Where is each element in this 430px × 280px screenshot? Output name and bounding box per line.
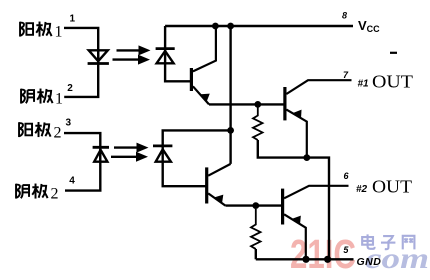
LED D1 triangle — [89, 50, 108, 61]
transistor Q4 base bar — [281, 189, 284, 225]
label anode2 阳极2 — [19, 122, 61, 141]
LED D2 cathode bar — [93, 146, 109, 149]
LED D1 cathode bar — [88, 62, 109, 65]
transistor Q2 emitter — [286, 110, 306, 158]
junction dot A (Q1 collector) — [212, 23, 219, 30]
resistor R1 — [253, 107, 263, 140]
junction dot PD2/rail — [227, 127, 234, 134]
label anode1 阳极1 — [20, 22, 62, 41]
minus dash mark — [390, 52, 397, 54]
transistor Q4 emitter — [284, 214, 306, 259]
junction dot B (vertical rail) — [227, 23, 234, 30]
transistor Q2 base bar — [283, 87, 286, 120]
wire PD2 anode to Q3 base — [163, 162, 207, 187]
photodiode PD1 triangle — [157, 51, 174, 63]
wire pin1 to LED1 anode — [64, 28, 98, 64]
junction dot R2 top — [252, 202, 259, 209]
svg-text:OUT: OUT — [372, 72, 413, 92]
wire Q3 emitter to Q4 base — [225, 204, 282, 206]
svg-text:2: 2 — [51, 186, 59, 203]
wire LED2 to pin4 — [65, 149, 100, 191]
svg-text:#1: #1 — [358, 79, 370, 90]
wire PD1 anode to Q1 base — [165, 63, 191, 81]
svg-text:4: 4 — [69, 176, 75, 187]
GND rail — [256, 258, 354, 260]
vertical VCC rail — [229, 26, 231, 164]
transistor Q1 emitter — [193, 86, 209, 104]
label cathode2 阴极2 — [16, 184, 58, 203]
LED D2 triangle — [94, 150, 107, 162]
junction dot Q2 emitter — [303, 154, 310, 161]
transistor Q4 collector — [284, 186, 348, 199]
svg-text:2: 2 — [67, 83, 73, 94]
svg-text:1: 1 — [55, 91, 63, 108]
Q3 emitter arrow — [214, 191, 226, 203]
Q4 emitter arrow — [292, 213, 304, 225]
wire Q1 emitter to Q2 base — [209, 103, 285, 105]
wire pin3 to LED2 — [64, 133, 100, 162]
transistor Q3 base bar — [205, 167, 208, 203]
wire PD2 cathode to rail — [163, 130, 231, 161]
svg-text:8: 8 — [342, 10, 347, 20]
wire PD1 cathode to VCC rail — [164, 26, 166, 63]
svg-text:GND: GND — [357, 256, 382, 268]
resistor R2 — [251, 209, 261, 249]
svg-text:#2: #2 — [356, 184, 368, 195]
Q1 emitter arrow — [200, 90, 212, 102]
light arrows channel 2 — [111, 143, 149, 162]
photodiode PD2 triangle — [156, 149, 171, 161]
junction dot GND link — [324, 256, 331, 263]
svg-text:2: 2 — [54, 125, 62, 142]
svg-text:1: 1 — [70, 14, 76, 25]
transistor Q1 base bar — [190, 68, 193, 91]
watermark dianzwang 电子网 — [362, 234, 374, 248]
label cathode1 阴极1 — [21, 89, 63, 108]
light arrows channel 1 — [113, 45, 151, 64]
wire R2 bottom to GND — [255, 249, 257, 259]
svg-text:1: 1 — [55, 24, 63, 41]
photodiode PD2 cathode bar — [153, 144, 172, 147]
transistor Q3 emitter — [208, 193, 225, 205]
wire LED1 cathode to pin2 — [64, 50, 98, 97]
junction dot Q4 emitter GND — [302, 256, 309, 263]
transistor Q1 collector — [193, 26, 216, 71]
wire R1 bottom to emitter/ground link — [258, 140, 329, 259]
svg-text:3: 3 — [66, 117, 72, 128]
svg-text:OUT: OUT — [372, 177, 412, 197]
transistor Q3 collector — [208, 164, 230, 176]
VCC top rail — [165, 25, 353, 27]
Q2 emitter arrow — [293, 107, 305, 119]
transistor Q2 collector — [286, 80, 351, 94]
junction dot R1 top — [254, 101, 261, 108]
photodiode PD1 cathode bar — [156, 47, 175, 50]
